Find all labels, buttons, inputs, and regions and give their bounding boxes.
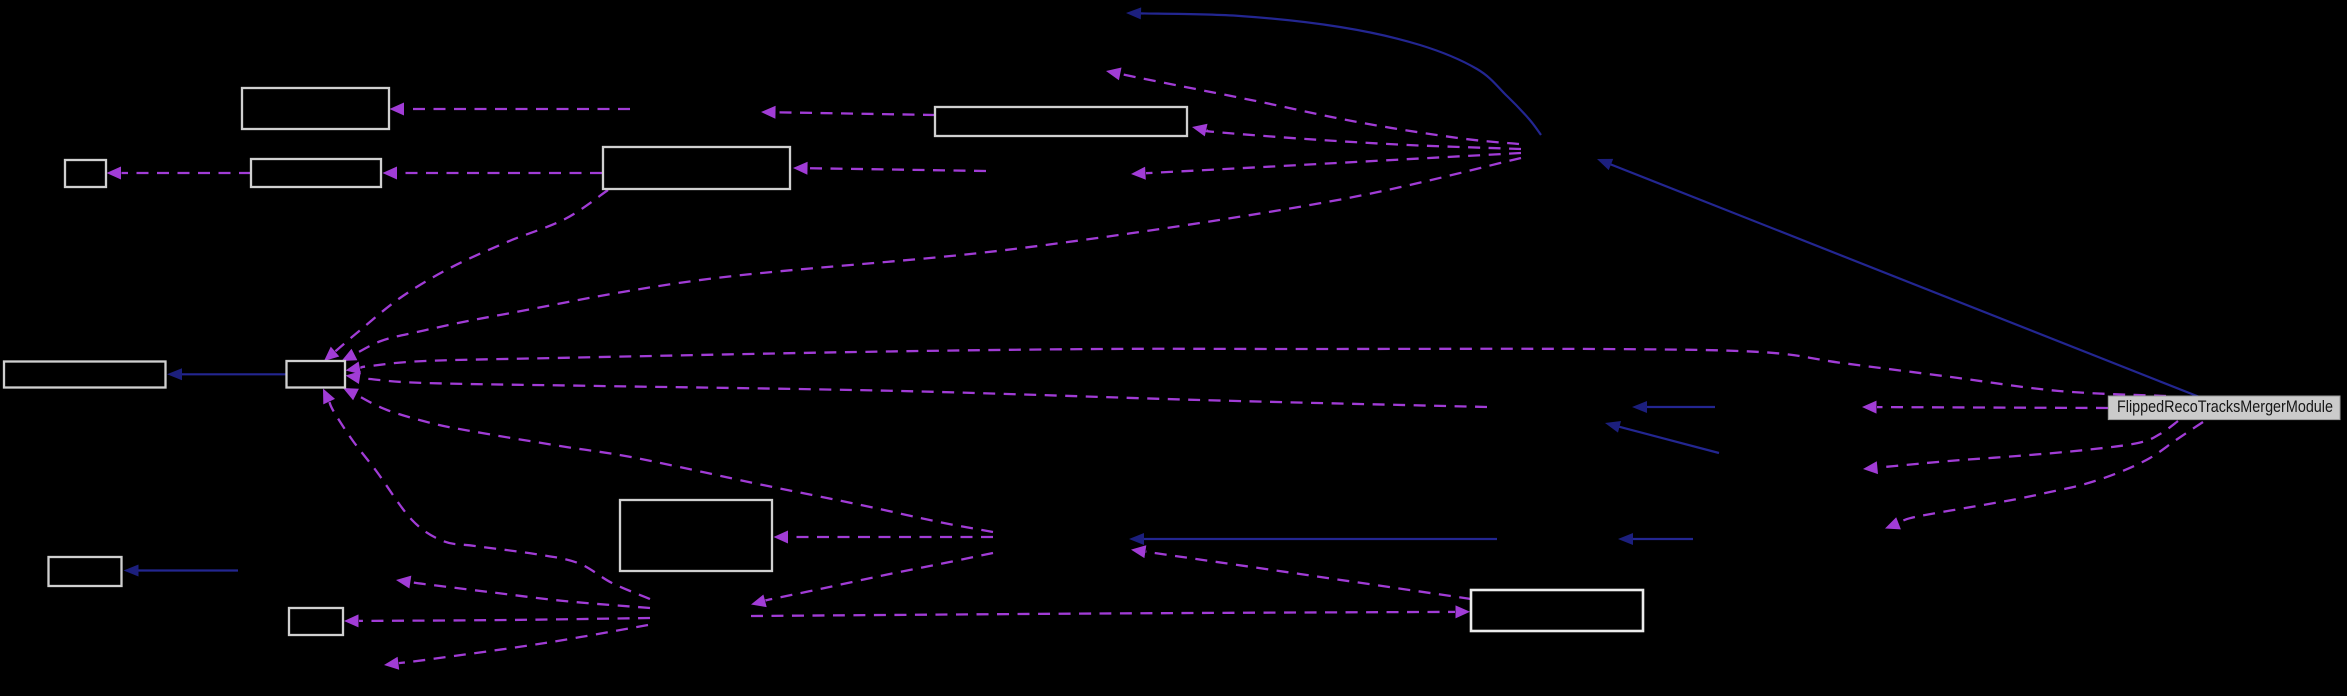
svg-text:FlippedRecoTracksMergerModule: FlippedRecoTracksMergerModule — [2117, 397, 2333, 416]
